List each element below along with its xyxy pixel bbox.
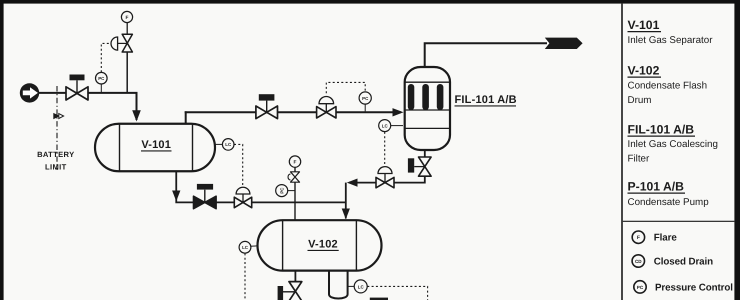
svg-text:Pressure Control: Pressure Control	[655, 282, 733, 293]
instrument LC level controller (FIL-101)	[379, 120, 403, 166]
wire inlet pipe to V-101	[39, 93, 137, 120]
instrument F flare (top-left)	[121, 11, 132, 22]
boot pump suction nozzle	[329, 270, 348, 299]
svg-text:PC: PC	[362, 96, 369, 101]
valve inlet gate valve	[66, 75, 88, 101]
vessel V-102	[258, 220, 382, 270]
svg-text:Inlet Gas Separator: Inlet Gas Separator	[628, 35, 714, 46]
svg-text:F: F	[637, 235, 640, 241]
svg-text:CD: CD	[635, 259, 642, 264]
arrow on V-101 drain	[172, 191, 180, 202]
valve drain control valve LV	[234, 187, 251, 207]
svg-text:Flare: Flare	[654, 233, 678, 244]
svg-text:V-102: V-102	[628, 63, 660, 77]
svg-text:FIL-101 A/B: FIL-101 A/B	[455, 94, 517, 106]
svg-text:BATTERY: BATTERY	[37, 150, 74, 159]
wire gas line to FIL-101	[185, 111, 401, 113]
legend item Closed Drain	[632, 255, 713, 268]
svg-text:P-101 A/B: P-101 A/B	[628, 179, 685, 193]
svg-text:LC: LC	[358, 284, 365, 289]
label V-102	[308, 239, 339, 251]
arrow into V-101 top	[132, 110, 141, 121]
svg-text:PC: PC	[280, 187, 285, 194]
sidebar heading P-101 A/B	[628, 179, 710, 208]
instrument PC pressure controller (inlet)	[96, 43, 111, 92]
valve gas line gate valve	[256, 94, 278, 118]
svg-text:LIMIT: LIMIT	[45, 163, 67, 172]
valve gas line control valve	[317, 97, 336, 119]
wire V-101 gas outlet riser	[185, 111, 187, 124]
label BATTERY LIMIT	[37, 150, 74, 172]
arrow into FIL-101	[393, 108, 404, 116]
valve handle below (cut off at edge)	[370, 298, 388, 300]
vessel V-101	[95, 124, 215, 172]
sidebar heading V-101	[628, 18, 714, 46]
svg-text:V-102: V-102	[308, 239, 338, 251]
svg-text:F: F	[126, 15, 129, 21]
wire flare riser	[126, 52, 128, 93]
wire V-102 bottom drain	[294, 271, 296, 282]
valve small flare PCV	[288, 172, 300, 182]
svg-text:Inlet Gas Coalescing: Inlet Gas Coalescing	[628, 139, 718, 150]
filter element 2	[422, 84, 429, 110]
svg-text:LC: LC	[225, 142, 232, 147]
svg-text:PC: PC	[637, 285, 644, 290]
battery limit line	[56, 86, 58, 170]
wire FIL-101 top outlet	[425, 43, 547, 67]
svg-text:FIL-101 A/B: FIL-101 A/B	[628, 122, 695, 136]
wire junction down into V-102	[345, 183, 347, 219]
instrument LC level controller (boot)	[347, 280, 428, 300]
inlet flow symbol	[20, 83, 39, 102]
vessel FIL-101 A/B coalescing filter	[405, 67, 450, 150]
svg-text:LC: LC	[382, 124, 389, 129]
wire V-102 flare branch	[294, 167, 296, 220]
wire FIL-101 bottom drain	[424, 150, 426, 158]
valve drain gate valve (closed, filled)	[194, 184, 217, 209]
arrow to junction (left)	[347, 179, 358, 187]
legend item Flare	[632, 231, 677, 244]
svg-text:Filter: Filter	[628, 153, 651, 164]
valve flare control valve PCV	[111, 34, 132, 52]
svg-text:Closed Drain: Closed Drain	[654, 257, 713, 268]
border frame right	[734, 0, 740, 300]
svg-text:LC: LC	[242, 245, 249, 250]
svg-text:Condensate Pump: Condensate Pump	[628, 197, 710, 208]
label FIL-101 A/B	[455, 94, 517, 106]
label V-101	[141, 139, 172, 151]
sidebar heading FIL-101 A/B	[628, 122, 718, 164]
wire FIL drain to V-102	[349, 176, 425, 182]
border frame left	[0, 0, 4, 300]
sidebar heading V-102	[628, 63, 708, 106]
filter element 1	[408, 84, 415, 110]
off-page arrow gas export	[545, 38, 583, 49]
border frame top	[0, 0, 740, 4]
arrow into V-102 top	[342, 209, 350, 220]
legend item Pressure Control	[634, 281, 733, 294]
svg-text:PC: PC	[98, 76, 105, 81]
svg-text:V-101: V-101	[628, 18, 660, 32]
svg-text:F: F	[294, 160, 297, 166]
instrument F flare (V-102)	[289, 156, 300, 167]
instrument LC level controller (V-102)	[239, 241, 258, 300]
svg-text:Condensate Flash: Condensate Flash	[628, 80, 708, 91]
svg-text:Drum: Drum	[628, 95, 652, 106]
instrument PC pressure controller (gas line)	[326, 82, 371, 111]
instrument PC pressure controller (V-102 flare, rotated)	[276, 185, 295, 197]
legend separator line	[623, 220, 735, 222]
valve FIL drain gate valve	[408, 157, 431, 176]
wire V-101 bottom drain	[176, 171, 346, 202]
sidebar divider line	[621, 4, 623, 300]
wire valve to flare bubble	[126, 23, 128, 35]
filter element 3	[437, 84, 444, 110]
instrument LC level controller (V-101)	[215, 139, 243, 186]
battery limit marker	[53, 113, 63, 119]
valve V-102 drain gate valve	[278, 282, 302, 300]
svg-text:V-101: V-101	[141, 139, 171, 151]
valve condensate control valve (FIL drain)	[376, 167, 394, 188]
